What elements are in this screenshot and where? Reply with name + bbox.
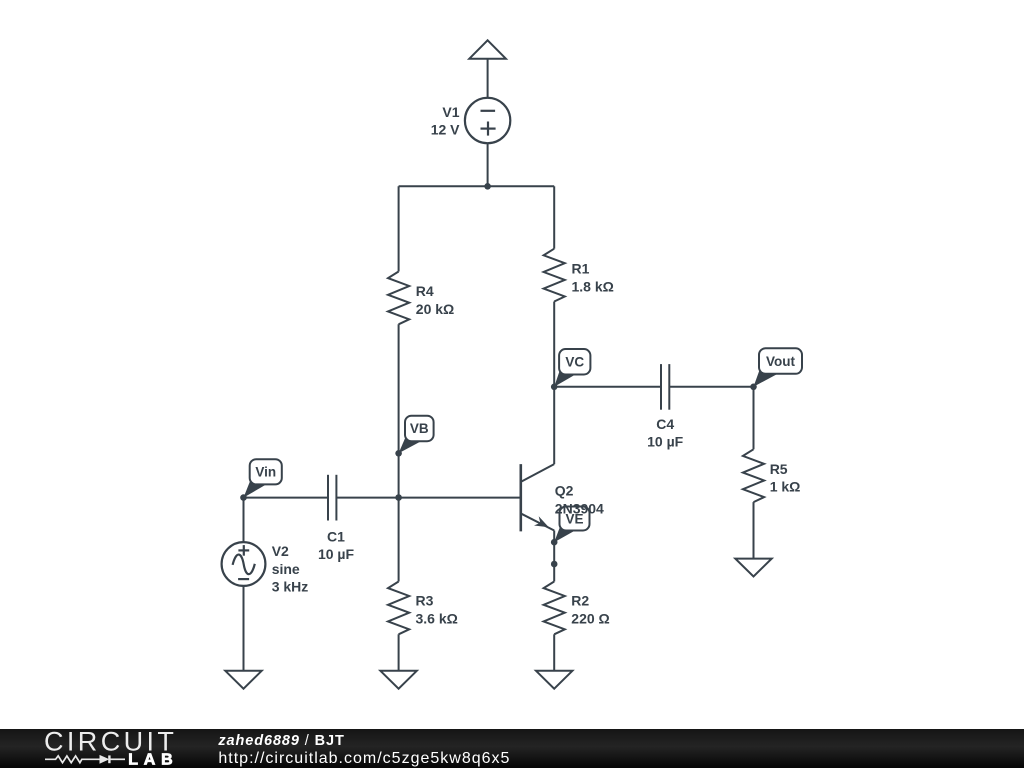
svg-text:VB: VB [410, 421, 429, 436]
svg-text:http://circuitlab.com/c5zge5kw: http://circuitlab.com/c5zge5kw8q6x5 [218, 750, 510, 767]
svg-text:220 Ω: 220 Ω [571, 611, 609, 627]
svg-text:Vout: Vout [766, 354, 795, 369]
svg-text:R5: R5 [770, 461, 788, 477]
svg-text:sine: sine [272, 561, 300, 577]
svg-text:V2: V2 [272, 543, 289, 559]
svg-text:zahed6889 / BJT: zahed6889 / BJT [217, 733, 344, 749]
svg-text:10 µF: 10 µF [647, 434, 684, 450]
svg-text:1 kΩ: 1 kΩ [770, 479, 801, 495]
svg-text:R3: R3 [416, 593, 434, 609]
svg-text:R2: R2 [571, 593, 589, 609]
svg-text:R4: R4 [416, 283, 434, 299]
svg-text:LAB: LAB [128, 751, 178, 768]
svg-text:1.8 kΩ: 1.8 kΩ [572, 279, 614, 295]
svg-text:Vin: Vin [255, 465, 276, 480]
svg-text:V1: V1 [442, 104, 459, 120]
svg-text:10 µF: 10 µF [318, 546, 355, 562]
svg-text:C4: C4 [656, 416, 674, 432]
svg-text:12 V: 12 V [431, 122, 460, 138]
svg-text:20 kΩ: 20 kΩ [416, 301, 454, 317]
svg-text:VC: VC [565, 355, 584, 370]
svg-text:3.6 kΩ: 3.6 kΩ [416, 611, 458, 627]
svg-text:C1: C1 [327, 529, 345, 545]
svg-text:3 kHz: 3 kHz [272, 579, 309, 595]
svg-text:VE: VE [565, 511, 583, 526]
svg-text:R1: R1 [572, 261, 590, 277]
svg-text:Q2: Q2 [555, 483, 574, 499]
